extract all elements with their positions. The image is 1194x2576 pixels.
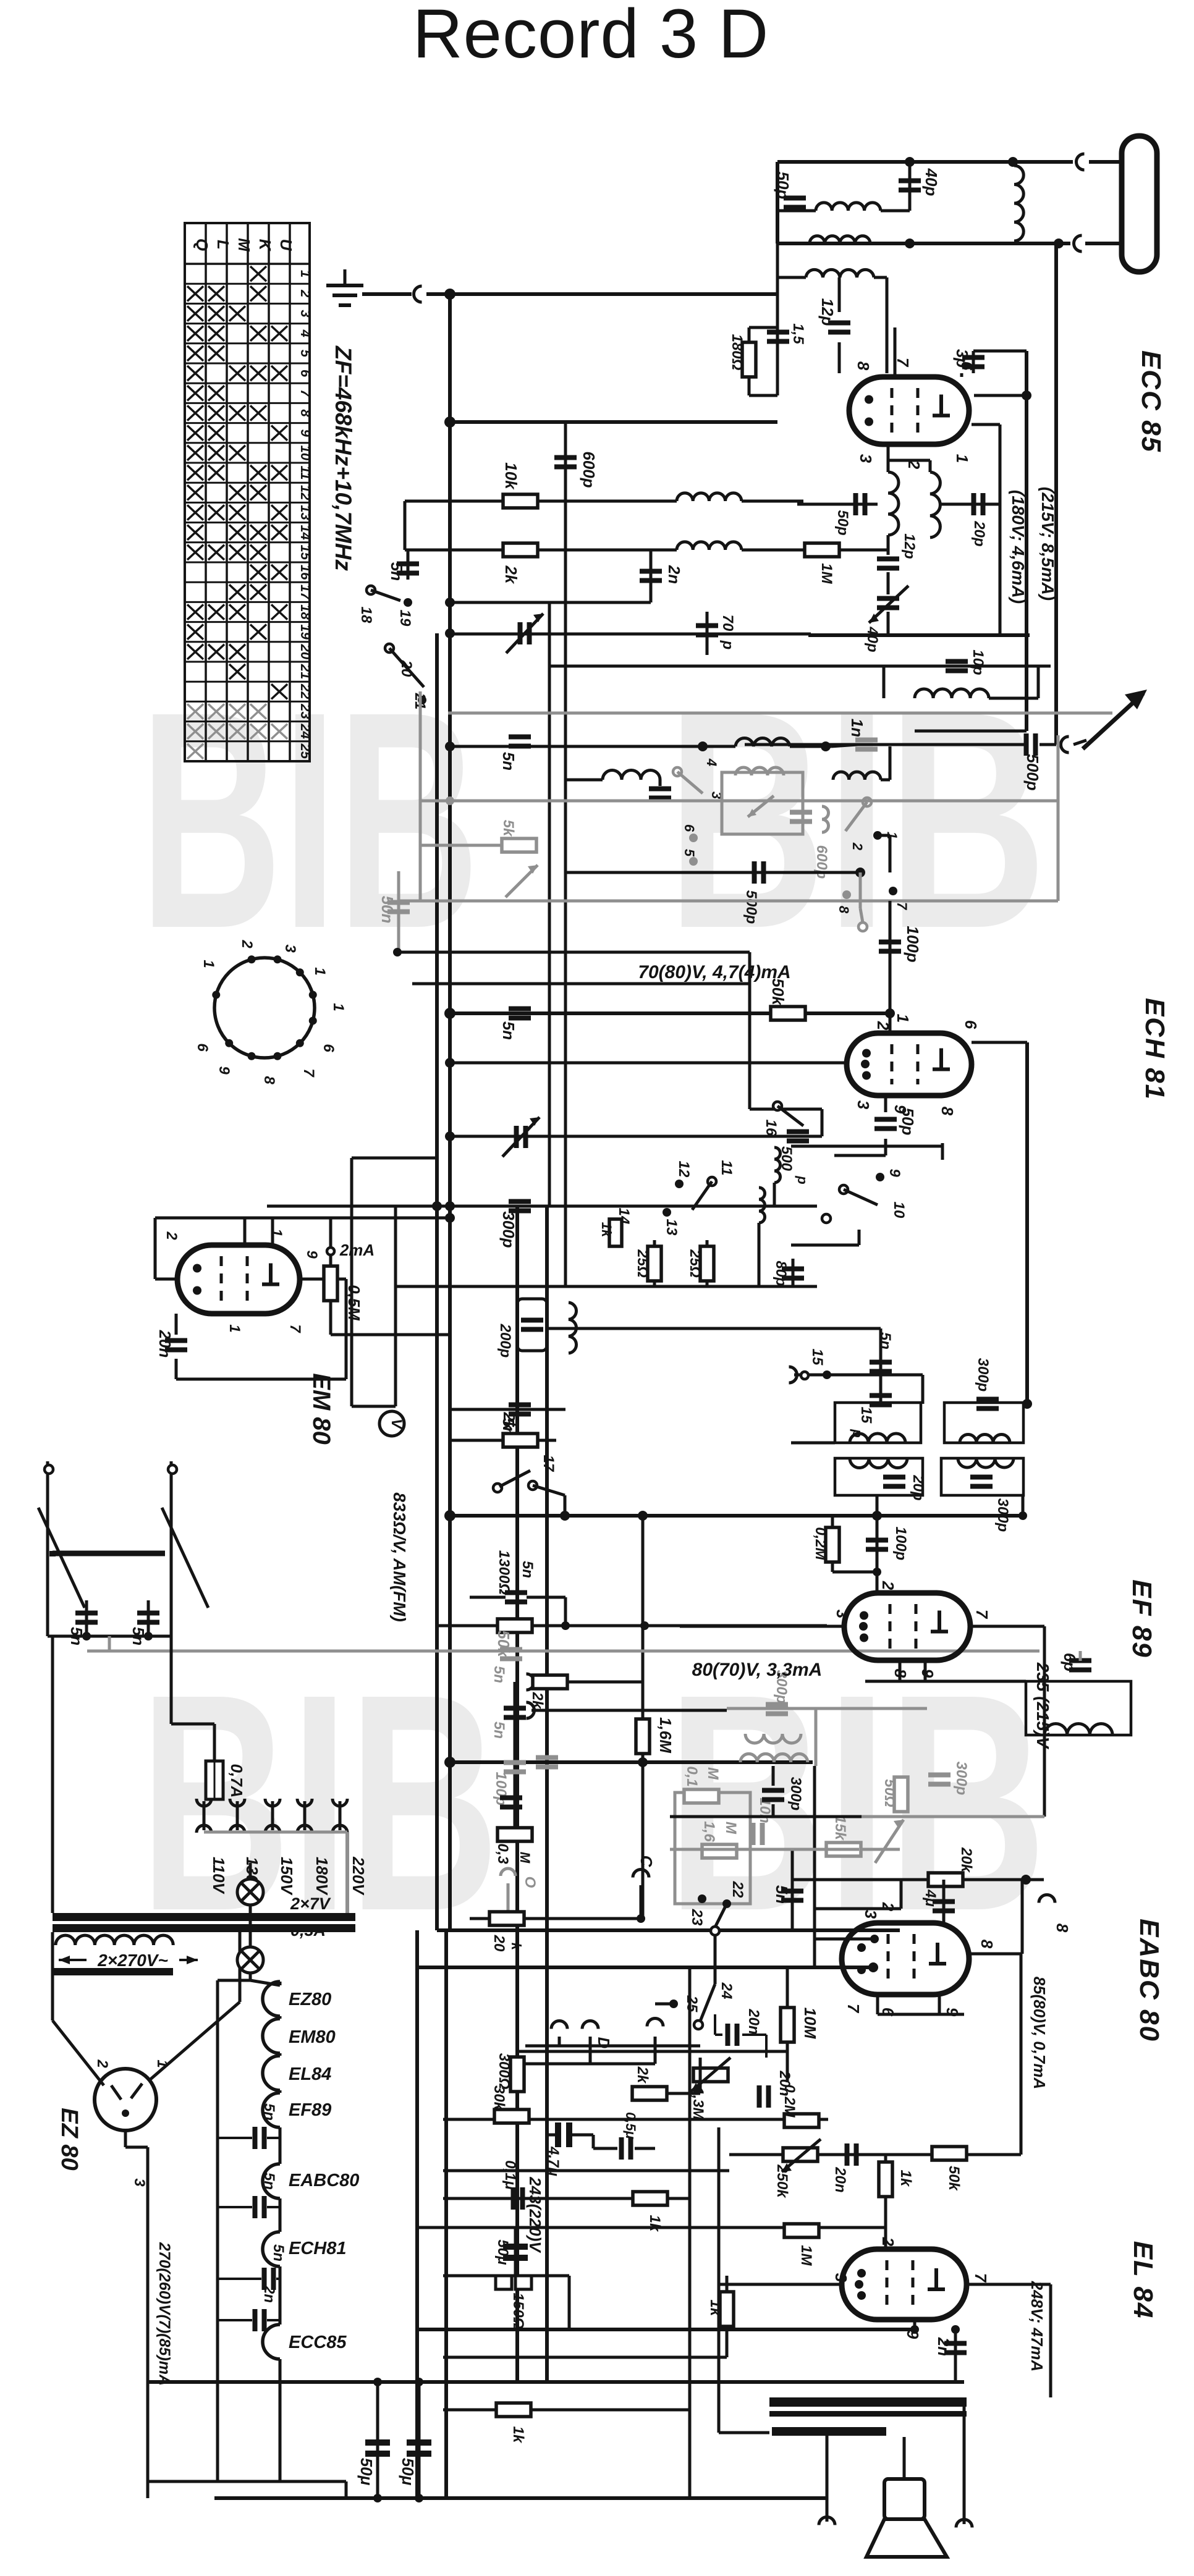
svg-text:2n: 2n <box>665 565 684 584</box>
svg-text:M: M <box>235 238 253 252</box>
svg-text:150V: 150V <box>277 1857 296 1896</box>
svg-text:19: 19 <box>397 610 413 627</box>
svg-text:270(260)V(7)(85)mA: 270(260)V(7)(85)mA <box>156 2242 173 2386</box>
svg-text:17: 17 <box>298 585 313 601</box>
svg-text:6: 6 <box>194 1043 211 1052</box>
svg-text:110V: 110V <box>210 1857 228 1894</box>
svg-text:1: 1 <box>311 967 328 975</box>
svg-text:2: 2 <box>94 2059 111 2068</box>
svg-text:50μ: 50μ <box>494 2239 511 2265</box>
svg-text:20n: 20n <box>832 2166 849 2192</box>
svg-text:50k: 50k <box>494 1630 513 1658</box>
svg-text:V: V <box>388 1419 405 1430</box>
svg-text:8: 8 <box>1053 1924 1072 1933</box>
svg-text:L: L <box>214 240 232 250</box>
svg-text:220V: 220V <box>349 1856 368 1896</box>
svg-text:5n: 5n <box>387 562 406 581</box>
svg-text:9: 9 <box>298 429 313 437</box>
svg-text:15: 15 <box>858 1407 874 1424</box>
svg-text:12: 12 <box>298 485 313 500</box>
svg-text:3: 3 <box>857 454 875 463</box>
svg-text:5n: 5n <box>491 1666 507 1683</box>
svg-text:0,3: 0,3 <box>494 1843 511 1864</box>
svg-text:85(80)V, 0,7mA: 85(80)V, 0,7mA <box>1030 1977 1049 2090</box>
svg-text:EL 84: EL 84 <box>1128 2241 1158 2320</box>
svg-text:4: 4 <box>298 329 313 337</box>
svg-text:3: 3 <box>131 2178 148 2187</box>
svg-text:20n: 20n <box>776 2070 793 2096</box>
svg-text:8: 8 <box>261 1076 277 1084</box>
svg-text:M: M <box>722 1822 739 1835</box>
svg-text:1k: 1k <box>510 2426 527 2444</box>
svg-text:6: 6 <box>682 824 697 832</box>
svg-text:5n: 5n <box>499 1021 518 1040</box>
svg-text:18: 18 <box>298 604 313 620</box>
svg-text:2k: 2k <box>500 1412 519 1431</box>
svg-text:0,3A: 0,3A <box>290 1921 326 1940</box>
svg-text:11: 11 <box>298 466 313 480</box>
svg-text:1k: 1k <box>646 2215 663 2232</box>
svg-text:1: 1 <box>298 270 313 277</box>
svg-text:3: 3 <box>832 2273 850 2283</box>
svg-text:16: 16 <box>298 565 313 580</box>
svg-text:50k: 50k <box>946 2166 962 2192</box>
svg-text:p: p <box>719 640 736 650</box>
svg-text:243(220)V: 243(220)V <box>526 2176 544 2253</box>
svg-text:500p: 500p <box>1023 754 1042 790</box>
svg-text:600p: 600p <box>580 451 598 488</box>
svg-text:2: 2 <box>879 2237 897 2247</box>
svg-text:50p: 50p <box>899 1108 917 1136</box>
svg-text:20k: 20k <box>958 1847 975 1873</box>
svg-text:7: 7 <box>894 902 910 911</box>
svg-text:300p: 300p <box>787 1777 804 1811</box>
svg-text:8: 8 <box>938 1107 957 1116</box>
svg-text:7: 7 <box>972 2273 990 2283</box>
svg-text:5: 5 <box>682 849 697 857</box>
svg-text:EZ80: EZ80 <box>289 1990 331 2009</box>
svg-text:10: 10 <box>891 1202 907 1218</box>
svg-text:10: 10 <box>298 446 313 461</box>
svg-text:1,5: 1,5 <box>790 323 807 344</box>
svg-text:25: 25 <box>684 1995 700 2012</box>
svg-text:1,6M: 1,6M <box>656 1717 675 1754</box>
svg-text:2×270V~: 2×270V~ <box>97 1951 168 1970</box>
svg-text:50k: 50k <box>769 978 787 1006</box>
svg-text:1: 1 <box>154 2059 171 2067</box>
svg-text:300p: 300p <box>499 1211 518 1248</box>
svg-text:300p: 300p <box>975 1358 991 1392</box>
svg-text:9: 9 <box>216 1066 232 1075</box>
svg-text:15k: 15k <box>832 1815 849 1841</box>
svg-text:4μ: 4μ <box>922 1889 939 1907</box>
svg-text:16: 16 <box>763 1120 779 1136</box>
svg-text:EL84: EL84 <box>289 2064 331 2084</box>
svg-text:180Ω: 180Ω <box>729 334 745 371</box>
svg-text:9: 9 <box>886 1168 903 1177</box>
svg-text:40p: 40p <box>922 168 941 196</box>
svg-text:3: 3 <box>833 1610 852 1619</box>
svg-text:70(80)V, 4,7(4)mA: 70(80)V, 4,7(4)mA <box>638 962 790 982</box>
svg-text:5n: 5n <box>270 2244 287 2261</box>
svg-text:2n: 2n <box>934 2337 953 2356</box>
svg-text:2: 2 <box>298 289 313 298</box>
svg-text:8: 8 <box>854 361 873 371</box>
svg-text:21: 21 <box>298 664 313 679</box>
svg-text:0,7A: 0,7A <box>227 1764 246 1798</box>
svg-text:150Ω: 150Ω <box>510 2293 527 2329</box>
svg-text:9: 9 <box>303 1250 320 1259</box>
svg-text:8: 8 <box>298 409 313 417</box>
svg-text:8: 8 <box>836 906 852 914</box>
svg-text:p: p <box>795 1175 810 1184</box>
svg-text:3: 3 <box>854 1100 873 1110</box>
svg-text:5n: 5n <box>773 1885 791 1904</box>
svg-text:2: 2 <box>239 939 255 948</box>
svg-text:24: 24 <box>718 1982 735 2000</box>
svg-text:5: 5 <box>298 350 313 358</box>
svg-text:23: 23 <box>298 703 313 719</box>
svg-text:7: 7 <box>973 1610 991 1620</box>
svg-text:10M: 10M <box>801 2008 819 2040</box>
svg-text:7: 7 <box>287 1324 303 1333</box>
svg-text:3: 3 <box>298 310 313 317</box>
svg-text:13: 13 <box>298 505 313 520</box>
svg-text:EM80: EM80 <box>289 2027 336 2047</box>
svg-text:1: 1 <box>894 1014 912 1023</box>
svg-text:50p: 50p <box>774 172 792 200</box>
svg-text:15: 15 <box>298 545 313 560</box>
svg-text:248V; 47mA: 248V; 47mA <box>1028 2281 1046 2371</box>
svg-text:2: 2 <box>850 842 865 851</box>
svg-text:12p: 12p <box>818 298 837 326</box>
svg-text:C: C <box>637 1856 656 1868</box>
svg-text:7: 7 <box>298 389 313 398</box>
svg-text:10k: 10k <box>502 462 520 490</box>
svg-text:23: 23 <box>688 1909 705 1926</box>
svg-text:0,5M: 0,5M <box>345 1285 363 1321</box>
svg-text:20: 20 <box>298 644 313 660</box>
svg-text:24: 24 <box>298 723 313 738</box>
svg-text:25Ω: 25Ω <box>634 1249 651 1278</box>
svg-text:ECC 85: ECC 85 <box>1136 350 1166 453</box>
svg-text:20: 20 <box>491 1935 507 1952</box>
svg-text:50p: 50p <box>834 510 851 535</box>
svg-text:ECH 81: ECH 81 <box>1140 998 1170 1100</box>
svg-text:50μ: 50μ <box>399 2458 417 2486</box>
svg-text:6: 6 <box>320 1044 337 1052</box>
svg-text:11: 11 <box>718 1160 735 1176</box>
svg-text:5k: 5k <box>500 820 517 837</box>
svg-text:EZ 80: EZ 80 <box>56 2108 82 2170</box>
svg-text:1: 1 <box>268 1228 285 1236</box>
svg-text:1n: 1n <box>848 719 866 737</box>
svg-text:3p: 3p <box>953 349 972 368</box>
svg-text:2: 2 <box>163 1231 180 1240</box>
svg-text:180V: 180V <box>313 1857 331 1896</box>
svg-text:19: 19 <box>298 624 313 640</box>
svg-text:14: 14 <box>298 525 313 539</box>
svg-text:4,7μ: 4,7μ <box>545 2146 562 2176</box>
svg-text:Record 3 D: Record 3 D <box>413 0 769 72</box>
svg-text:5n: 5n <box>261 2103 277 2121</box>
svg-text:100p: 100p <box>493 1772 509 1806</box>
svg-text:12: 12 <box>675 1161 692 1178</box>
svg-text:1M: 1M <box>818 563 835 584</box>
svg-text:5n: 5n <box>519 1561 536 1578</box>
svg-text:5n: 5n <box>491 1721 507 1739</box>
svg-text:12p: 12p <box>901 533 918 559</box>
svg-text:U: U <box>277 239 295 251</box>
svg-text:EABC80: EABC80 <box>289 2171 359 2190</box>
svg-text:2k: 2k <box>502 565 520 585</box>
svg-text:1,6: 1,6 <box>701 1821 718 1842</box>
svg-text:25Ω: 25Ω <box>687 1249 703 1278</box>
svg-text:4: 4 <box>704 758 719 766</box>
svg-text:1k: 1k <box>707 2300 724 2317</box>
svg-text:5n: 5n <box>877 1332 894 1349</box>
svg-text:50Ω: 50Ω <box>881 1779 898 1807</box>
svg-text:ZF=468kHz+10,7MHz: ZF=468kHz+10,7MHz <box>331 345 356 572</box>
svg-text:6: 6 <box>962 1020 980 1029</box>
svg-text:1k: 1k <box>897 2170 914 2187</box>
svg-text:9: 9 <box>918 1669 937 1678</box>
svg-text:0,1: 0,1 <box>684 1766 700 1786</box>
svg-text:6p: 6p <box>1061 1653 1079 1671</box>
svg-text:50μ: 50μ <box>357 2458 376 2486</box>
svg-text:2k: 2k <box>529 1692 546 1710</box>
svg-text:3: 3 <box>862 1910 880 1919</box>
svg-text:300p: 300p <box>953 1762 970 1796</box>
svg-text:2×7V: 2×7V <box>290 1894 331 1913</box>
svg-text:10p: 10p <box>970 649 986 675</box>
svg-text:300Ω: 300Ω <box>496 2053 512 2090</box>
svg-text:2mA: 2mA <box>339 1241 375 1259</box>
svg-text:ECC85: ECC85 <box>289 2333 347 2352</box>
svg-text:1: 1 <box>226 1324 243 1332</box>
svg-text:20p: 20p <box>971 520 988 546</box>
svg-text:ECH81: ECH81 <box>289 2239 347 2258</box>
svg-text:D: D <box>595 2037 613 2049</box>
svg-text:0,2M: 0,2M <box>812 1527 829 1560</box>
svg-text:100p: 100p <box>904 926 922 962</box>
svg-text:(215V; 8,5mA): (215V; 8,5mA) <box>1038 487 1057 601</box>
svg-text:22: 22 <box>298 683 313 699</box>
svg-text:250k: 250k <box>774 2164 790 2198</box>
svg-text:7: 7 <box>844 2004 863 2014</box>
svg-text:1M: 1M <box>798 2245 815 2266</box>
svg-text:80p: 80p <box>773 1261 789 1286</box>
svg-text:O: O <box>522 1877 538 1888</box>
svg-text:M: M <box>517 1852 533 1864</box>
svg-text:22: 22 <box>729 1881 746 1898</box>
svg-text:1: 1 <box>953 454 972 463</box>
svg-text:1,3M: 1,3M <box>690 2087 706 2120</box>
svg-text:25: 25 <box>298 743 313 759</box>
svg-text:2n: 2n <box>261 2285 277 2303</box>
svg-text:1: 1 <box>200 960 217 968</box>
svg-text:1k: 1k <box>599 1222 614 1238</box>
svg-text:5n: 5n <box>261 2173 277 2190</box>
svg-text:20p: 20p <box>910 1474 926 1500</box>
svg-text:2k: 2k <box>634 2066 651 2084</box>
svg-text:40p: 40p <box>864 626 881 652</box>
svg-text:20n: 20n <box>745 2008 762 2034</box>
svg-text:k: k <box>509 1943 524 1951</box>
svg-text:17: 17 <box>540 1455 557 1472</box>
svg-text:100p: 100p <box>892 1527 909 1561</box>
svg-text:80(70)V, 3,3mA: 80(70)V, 3,3mA <box>692 1660 823 1680</box>
svg-text:1300Ω: 1300Ω <box>496 1550 512 1595</box>
svg-text:833Ω/V, AM(FM): 833Ω/V, AM(FM) <box>390 1492 409 1622</box>
svg-text:50n: 50n <box>378 896 397 924</box>
svg-text:(180V; 4,6mA): (180V; 4,6mA) <box>1009 490 1028 604</box>
svg-text:200p: 200p <box>497 1324 514 1358</box>
svg-text:EF89: EF89 <box>289 2100 331 2120</box>
svg-text:1: 1 <box>330 1003 347 1011</box>
svg-text:EM 80: EM 80 <box>308 1373 335 1445</box>
svg-text:3: 3 <box>282 944 298 953</box>
svg-text:M: M <box>705 1767 721 1780</box>
svg-text:20n: 20n <box>156 1330 174 1358</box>
svg-text:EABC 80: EABC 80 <box>1134 1919 1164 2042</box>
svg-text:20: 20 <box>398 660 415 677</box>
svg-text:18: 18 <box>358 607 375 623</box>
svg-text:2: 2 <box>874 1021 892 1031</box>
svg-text:6: 6 <box>298 370 313 378</box>
svg-text:70: 70 <box>719 615 736 631</box>
svg-text:235 (215)V: 235 (215)V <box>1033 1662 1052 1750</box>
svg-text:0,1μ: 0,1μ <box>502 2160 519 2190</box>
svg-text:13: 13 <box>663 1219 680 1236</box>
svg-text:0,5μ: 0,5μ <box>623 2112 638 2139</box>
svg-text:K: K <box>256 239 274 252</box>
svg-text:7: 7 <box>300 1068 317 1078</box>
svg-text:8: 8 <box>978 1940 996 1949</box>
svg-text:5n: 5n <box>499 752 518 771</box>
svg-text:15: 15 <box>809 1349 826 1366</box>
svg-text:2: 2 <box>879 1581 897 1590</box>
svg-text:Q: Q <box>193 239 211 251</box>
svg-text:EF 89: EF 89 <box>1127 1579 1157 1658</box>
svg-text:500p: 500p <box>743 890 760 924</box>
